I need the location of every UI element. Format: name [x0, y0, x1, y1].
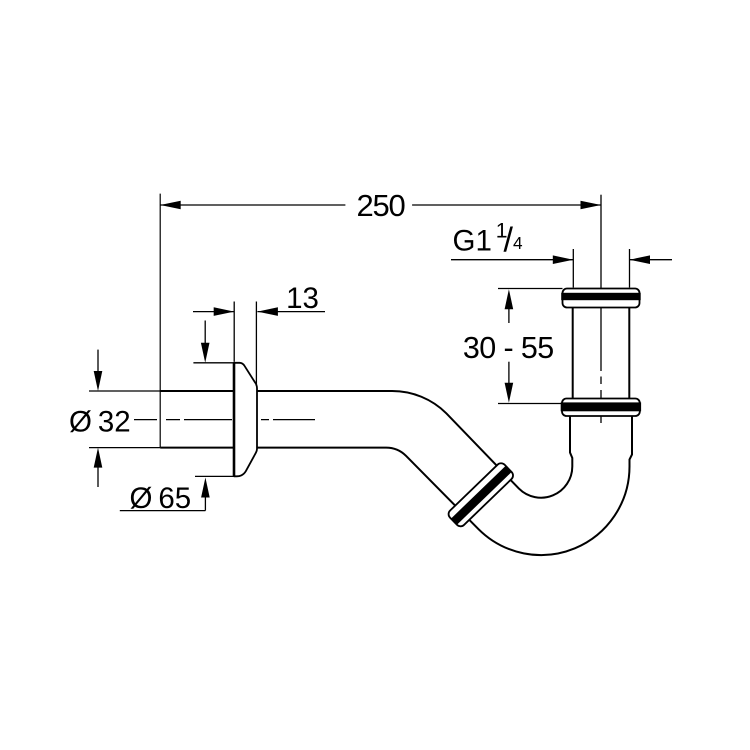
arrow 13 left — [214, 307, 235, 316]
vertical centerline dash-dot through nuts — [600, 288, 602, 423]
svg-text:G1: G1 — [453, 224, 492, 257]
upper nut (flange) — [563, 289, 640, 308]
wall pipe bottom edge + elbow + diagonal lower edge + U outer arc + vertical tube lower-right edge — [160, 416, 632, 555]
arrow G1 left — [553, 255, 574, 264]
lower nut (flange) — [562, 399, 640, 417]
dimension 250 line — [160, 204, 345, 206]
svg-text:250: 250 — [356, 188, 405, 223]
G1 extension lines — [572, 249, 574, 288]
arrow G1 right — [630, 255, 651, 264]
escutcheon left edge (wall side, thicker) — [233, 363, 236, 477]
wall pipe top edge + elbow + diagonal upper edge + U inner arc + vertical tube lower-left edge — [160, 391, 572, 498]
horizontal centerline (dash-dot) — [134, 419, 232, 421]
union ring on diagonal — [446, 461, 515, 529]
Ø32 down arrow — [97, 350, 99, 372]
vertical centerline solid (250 right extension) — [600, 195, 602, 288]
30-55 up arrow — [508, 309, 510, 323]
escutcheon flange — [234, 363, 257, 477]
arrow 13 right — [257, 307, 278, 316]
arrow 250 left — [160, 201, 181, 210]
13 extension lines — [233, 302, 235, 362]
Ø32 extension lines — [89, 390, 160, 392]
svg-text:13: 13 — [286, 282, 319, 315]
Ø65 lower extension line (flange bottom extended) — [195, 475, 234, 477]
dimension G1 1/4 lines — [451, 259, 573, 261]
svg-text:Ø 65: Ø 65 — [130, 482, 192, 515]
svg-text:4: 4 — [513, 233, 523, 253]
vertical tube edges between nuts — [572, 307, 574, 399]
Ø65 down arrow — [204, 321, 206, 345]
wall pipe end line / 250 left extension line — [159, 194, 161, 448]
arrow 250 right — [581, 201, 602, 210]
svg-text:Ø 32: Ø 32 — [69, 406, 131, 439]
Ø32 up arrow — [97, 467, 99, 487]
svg-text:30 - 55: 30 - 55 — [463, 331, 554, 365]
dimension 13 lines — [193, 311, 234, 313]
Ø65 leader underline — [120, 510, 206, 512]
Ø65 up arrow — [204, 496, 206, 511]
Ø65 upper extension line — [193, 362, 234, 364]
30-55 down arrow — [508, 362, 510, 383]
svg-text:/: / — [504, 222, 514, 260]
dimension 30-55 extension lines — [498, 288, 563, 290]
